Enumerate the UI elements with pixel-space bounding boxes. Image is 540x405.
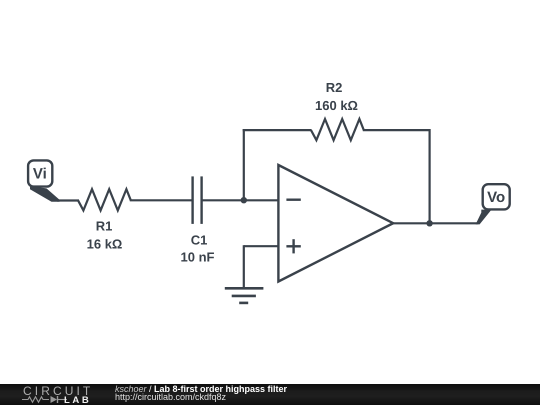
CircuitLab logo bbox=[23, 384, 93, 398]
svg-text:10 nF: 10 nF bbox=[181, 250, 215, 265]
svg-text:Vi: Vi bbox=[33, 166, 47, 183]
node junction B bbox=[426, 220, 432, 226]
label R2 160 kOhm bbox=[315, 80, 358, 113]
node Vi flag bbox=[28, 160, 59, 201]
wire plus input down to ground bbox=[243, 245, 245, 288]
wire plus input bbox=[244, 245, 279, 247]
footer title line bbox=[115, 384, 287, 394]
resistor R2 bbox=[311, 119, 364, 140]
logo LAB text bbox=[64, 395, 91, 405]
wire op-amp output to Vo bbox=[392, 222, 478, 224]
wire feedback top right bbox=[363, 129, 430, 131]
node Vo flag bbox=[476, 184, 510, 224]
svg-text:16 kΩ: 16 kΩ bbox=[87, 237, 123, 252]
wire Vi to R1 bbox=[57, 199, 79, 201]
op-amp U1 bbox=[278, 165, 393, 282]
svg-text:C1: C1 bbox=[191, 232, 208, 247]
capacitor C1 bbox=[193, 176, 202, 224]
svg-text:R1: R1 bbox=[96, 219, 113, 234]
footer url line bbox=[115, 392, 226, 402]
svg-text:Vo: Vo bbox=[487, 189, 505, 206]
wire R1 to C1 bbox=[130, 199, 193, 201]
svg-text:R2: R2 bbox=[326, 80, 343, 95]
label C1 10 nF bbox=[181, 232, 215, 264]
ground bbox=[225, 288, 264, 303]
footer bar bbox=[0, 384, 540, 405]
label R1 16 kOhm bbox=[87, 219, 123, 252]
wire junction A up to feedback bbox=[243, 129, 245, 201]
wire C1 to op-amp minus input bbox=[202, 199, 279, 201]
svg-text:160 kΩ: 160 kΩ bbox=[315, 98, 358, 113]
wire feedback right down to output bbox=[429, 129, 431, 223]
resistor R1 bbox=[78, 189, 131, 210]
logo resistor-diode line bbox=[22, 394, 67, 405]
node junction A bbox=[241, 197, 247, 203]
wire feedback top left bbox=[243, 129, 312, 131]
